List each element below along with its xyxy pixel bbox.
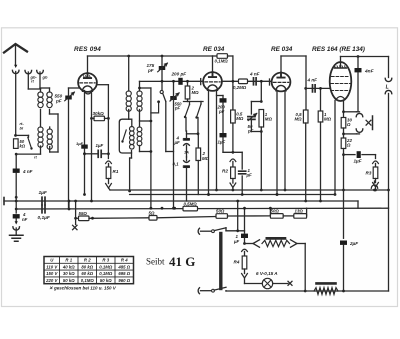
svg-text:4 nF: 4 nF <box>307 78 318 83</box>
wire grid line t4 <box>306 87 330 89</box>
svg-text:µF: µF <box>174 140 181 145</box>
svg-text:MΩ: MΩ <box>236 116 244 121</box>
wire v306 <box>305 56 307 110</box>
antenna coil L2b <box>47 129 52 134</box>
node t1 res <box>90 117 93 120</box>
resistor 30k <box>94 116 105 121</box>
svg-text:pF: pF <box>55 99 62 104</box>
svg-text:150 V: 150 V <box>46 271 58 276</box>
svg-text:1µF: 1µF <box>39 190 48 196</box>
svg-text:30 kΩ: 30 kΩ <box>63 271 75 276</box>
wire right rail down <box>388 190 390 291</box>
capacitor 4nF coupling2 <box>313 85 316 92</box>
svg-text:0,1MΩ: 0,1MΩ <box>81 278 95 283</box>
svg-text:nF: nF <box>22 217 28 222</box>
wire left column <box>15 154 17 168</box>
wire grid line t2 <box>140 80 204 82</box>
wire cath mid <box>343 128 345 138</box>
wire rt tap <box>16 153 40 155</box>
potentiometer R2 <box>230 159 236 162</box>
svg-text:gb: gb <box>42 75 48 80</box>
lamp 6V <box>245 283 263 285</box>
capacitor 200pF col <box>222 96 224 99</box>
resistor 0,2M <box>239 79 248 84</box>
svg-text:695 Ω: 695 Ω <box>118 271 130 276</box>
svg-text:50Ω: 50Ω <box>216 209 225 214</box>
wire t1 left leg <box>84 92 86 144</box>
wire avc down <box>68 100 70 210</box>
wire v91 down <box>91 118 93 201</box>
svg-text:50 kΩ: 50 kΩ <box>100 278 112 283</box>
svg-text:Ω: Ω <box>346 122 351 127</box>
capacitor 1uF cath <box>344 154 356 156</box>
IF1 primary coil <box>126 91 131 96</box>
svg-text:µF: µF <box>233 239 240 244</box>
wire plug to coil <box>28 88 40 90</box>
wire bus2 <box>130 194 335 196</box>
ground <box>10 235 24 241</box>
wire stub 69 <box>68 201 70 209</box>
mains prong top <box>198 228 199 234</box>
capacitor 4nF out <box>357 57 359 68</box>
potentiometer R3 <box>375 155 377 159</box>
resistor 0,1M top <box>213 55 218 57</box>
resistor 50ohm a <box>216 214 228 219</box>
wire r4 arc <box>242 249 248 251</box>
wire v173 <box>173 81 175 208</box>
resistor 1M col2 <box>320 88 322 111</box>
wire osc column <box>161 56 163 66</box>
svg-text:4nF: 4nF <box>364 69 375 75</box>
svg-text:R 2: R 2 <box>84 258 91 263</box>
svg-text:MΩ: MΩ <box>295 117 303 122</box>
selector bar <box>219 234 222 289</box>
svg-text:485 Ω: 485 Ω <box>117 264 130 269</box>
resistor 30ohm <box>341 118 346 129</box>
wire t2 legs <box>208 91 210 195</box>
capacitor 2uF <box>340 241 347 245</box>
svg-text:0,2MΩ: 0,2MΩ <box>233 85 247 90</box>
wire grid line t3 <box>222 80 271 82</box>
heater arrow right <box>291 240 298 247</box>
wire t3 anode <box>280 56 282 72</box>
svg-text:55Ω: 55Ω <box>79 211 88 216</box>
node bus2 left <box>15 208 18 211</box>
plug gb <box>37 71 44 74</box>
wire cath low <box>343 149 345 239</box>
wire t4 cathode col <box>343 101 345 118</box>
switch osc <box>160 90 163 93</box>
x mark heater <box>73 225 77 229</box>
svg-text:1µF: 1µF <box>354 159 362 164</box>
svg-text:µF: µF <box>246 173 253 178</box>
resistor 50ohm b <box>270 214 283 219</box>
wire IF1 bottoms <box>128 110 130 120</box>
wire osc lower <box>165 102 167 152</box>
mains prong bottom <box>198 288 199 294</box>
capacitor 1uF sel <box>241 234 248 238</box>
antenna coil L1a <box>38 92 43 97</box>
node t2 leg dots <box>207 193 210 196</box>
wire bus3 <box>4 200 358 202</box>
wire right rail <box>388 57 390 78</box>
resistor 1M col <box>259 110 264 128</box>
reaction coil frame <box>119 119 132 153</box>
speaker plug bottom <box>385 90 392 93</box>
switch band b <box>197 104 202 118</box>
svg-text:80 kΩ: 80 kΩ <box>81 264 93 269</box>
antenna plug hook <box>14 65 17 68</box>
svg-text:50 kΩ: 50 kΩ <box>63 278 75 283</box>
tube U1 filament bump <box>85 91 92 94</box>
grid leak bracket <box>260 81 262 101</box>
svg-text:MΩ: MΩ <box>192 90 200 95</box>
capacitor 1uF col <box>220 133 227 137</box>
svg-text:Ω: Ω <box>346 143 351 148</box>
wire t1 cathode leg <box>91 93 93 119</box>
svg-text:R3: R3 <box>366 171 372 176</box>
wire bus1 <box>110 189 389 191</box>
resistor 2M osc <box>187 81 189 86</box>
trimmer 550 osc <box>170 96 177 100</box>
x mark lamp <box>288 281 292 285</box>
node left col dot1 <box>14 134 17 137</box>
switch band a <box>187 99 189 102</box>
wire t1 right tap <box>97 84 109 86</box>
tube U4 RES 164 envelope <box>330 62 352 101</box>
jack bridge bot <box>344 133 357 135</box>
svg-text:50Ω: 50Ω <box>271 209 280 214</box>
svg-text:pF: pF <box>218 109 225 114</box>
wire t3 legs <box>276 91 278 194</box>
svg-text:30kΩ: 30kΩ <box>93 111 105 116</box>
plug hook bus1 <box>371 185 377 188</box>
wire t4 left leg <box>334 101 336 195</box>
wire r1 top <box>83 152 86 155</box>
svg-text:RE 034: RE 034 <box>271 46 293 53</box>
tube U1 RES 094 <box>78 73 97 92</box>
svg-text:R 3: R 3 <box>102 258 109 263</box>
node anode bus dots <box>127 55 130 58</box>
resistor R osc2 <box>197 134 199 148</box>
capacitor 4nF left-upper <box>13 169 20 173</box>
svg-text:5Ω: 5Ω <box>149 211 155 216</box>
wire bottom bus <box>225 290 227 292</box>
wire grid t1 <box>68 88 70 96</box>
wire x col <box>75 201 77 218</box>
reaction switch <box>123 130 127 142</box>
svg-text:L: L <box>386 84 389 90</box>
tube U2 RE 034 <box>203 72 222 91</box>
svg-text:41 G: 41 G <box>169 254 195 269</box>
svg-text:4 nF: 4 nF <box>249 72 260 77</box>
antenna coil L2a <box>38 127 43 132</box>
svg-text:pF: pF <box>147 68 154 73</box>
svg-text:4 nF: 4 nF <box>22 169 33 174</box>
table R values <box>44 257 134 284</box>
svg-text:RES 164 (RE 134): RES 164 (RE 134) <box>312 46 365 53</box>
node t3 dots <box>276 193 279 196</box>
antenna <box>4 44 27 53</box>
earth plug hook <box>15 219 17 223</box>
mains switch bottom <box>212 289 215 292</box>
wire coil link <box>40 110 42 128</box>
wire sel col <box>244 208 246 233</box>
jack bridge top <box>344 111 357 113</box>
svg-text:6 V-0,15 A: 6 V-0,15 A <box>256 271 278 276</box>
capacitor 1uF line <box>85 153 98 155</box>
wire t4 anode top <box>340 57 342 63</box>
plug gb-rt <box>25 71 32 74</box>
svg-text:0,1MΩ: 0,1MΩ <box>99 264 113 269</box>
capacitor 200pF grid <box>178 78 182 85</box>
resistor 0,5M col2 <box>303 110 308 123</box>
svg-text:40 kΩ: 40 kΩ <box>62 264 75 269</box>
wire v107 down <box>107 118 109 158</box>
wire left col lower <box>15 173 17 197</box>
wire sel down <box>244 238 246 244</box>
svg-text:60 kΩ: 60 kΩ <box>81 271 93 276</box>
wire bus4 <box>16 207 388 210</box>
wire anode drop <box>128 56 130 91</box>
resistor 22ohm <box>341 138 346 149</box>
wire reaction down <box>131 153 133 158</box>
antenna coil L1b <box>47 92 52 97</box>
svg-text:1A: 1A <box>184 151 189 155</box>
heater arrow left <box>253 240 260 247</box>
heater resistor <box>267 237 285 240</box>
wire sel feed <box>237 201 239 231</box>
resistor 50k <box>14 139 19 149</box>
wire sel top <box>225 228 227 231</box>
svg-text:R2: R2 <box>222 169 228 174</box>
svg-text:R4: R4 <box>234 260 240 265</box>
svg-text:0,1MΩ: 0,1MΩ <box>99 271 113 276</box>
svg-text:0,1MΩ: 0,1MΩ <box>215 59 229 64</box>
svg-text:RES 094: RES 094 <box>74 46 101 53</box>
wire heater down <box>304 244 306 292</box>
IF1 secondary coil <box>137 91 142 96</box>
svg-text:0,1: 0,1 <box>173 162 180 167</box>
wire v231 down <box>232 56 234 81</box>
wire 1uF line <box>15 200 17 202</box>
svg-text:2µF: 2µF <box>349 241 358 246</box>
wire cap col <box>222 103 224 133</box>
capacitor 1uF r2 <box>241 152 243 169</box>
wire t2 anode <box>212 56 214 72</box>
svg-text:R 4: R 4 <box>121 258 128 263</box>
wire anode bus t1 <box>87 56 89 73</box>
capacitor 0,1uF bus <box>42 205 45 213</box>
node bus dots <box>150 207 153 210</box>
resistor 0,5M col1 <box>232 81 234 110</box>
field coil resistor <box>317 282 336 285</box>
capacitor 4nF left-lower <box>15 209 17 213</box>
svg-text:Seibt: Seibt <box>146 257 165 267</box>
svg-text:kΩ: kΩ <box>20 144 26 149</box>
tube U3 RE 034 <box>272 73 291 92</box>
capacitor 1uF leg <box>81 145 88 149</box>
tube U4 grids <box>332 76 350 78</box>
resistor 13ohm <box>294 214 307 219</box>
switch osc throw <box>151 102 159 113</box>
svg-text:0,1µF: 0,1µF <box>38 215 51 221</box>
wave switch left <box>28 137 32 148</box>
svg-text:0,5MΩ: 0,5MΩ <box>184 202 198 207</box>
resistor 5ohm <box>149 216 157 221</box>
jack switch x <box>366 120 371 125</box>
wire step50 <box>269 208 271 216</box>
tube U4 anode <box>335 62 347 68</box>
svg-text:220 V: 220 V <box>45 278 58 283</box>
svg-text:MΩ: MΩ <box>324 117 332 122</box>
svg-text:1µF: 1µF <box>76 141 84 146</box>
resistor 0,5M bus <box>183 206 198 211</box>
resistor 55ohm <box>76 217 79 219</box>
svg-text:13Ω: 13Ω <box>295 209 304 214</box>
svg-text:1µF: 1µF <box>96 143 104 148</box>
reaction coil <box>130 127 135 132</box>
svg-text:R 1: R 1 <box>65 258 72 263</box>
tube U4 cathode <box>336 97 345 100</box>
trimmer 50pF <box>248 117 255 120</box>
svg-text:R1: R1 <box>113 169 119 174</box>
svg-text:200 pF: 200 pF <box>171 72 187 77</box>
svg-text:960 Ω: 960 Ω <box>118 278 130 283</box>
potentiometer R4 <box>242 256 247 269</box>
capacitor 4nF coupling <box>254 78 257 85</box>
mains switch top <box>212 230 215 233</box>
svg-text:1µF: 1µF <box>218 140 226 145</box>
svg-text:RE 034: RE 034 <box>203 46 225 53</box>
potentiometer R1 <box>106 161 112 164</box>
speaker plug top <box>385 78 392 81</box>
svg-text:110 V: 110 V <box>46 264 58 269</box>
wire r2 link <box>223 151 242 153</box>
capacitor plates 1uF2 <box>42 197 45 205</box>
IF1 secondary lower coil <box>139 110 141 128</box>
svg-text:MΩ: MΩ <box>265 117 273 122</box>
svg-text:pF: pF <box>174 106 181 111</box>
svg-text:✕ geschlossen bei 110 u. 150 V: ✕ geschlossen bei 110 u. 150 V <box>49 286 117 291</box>
